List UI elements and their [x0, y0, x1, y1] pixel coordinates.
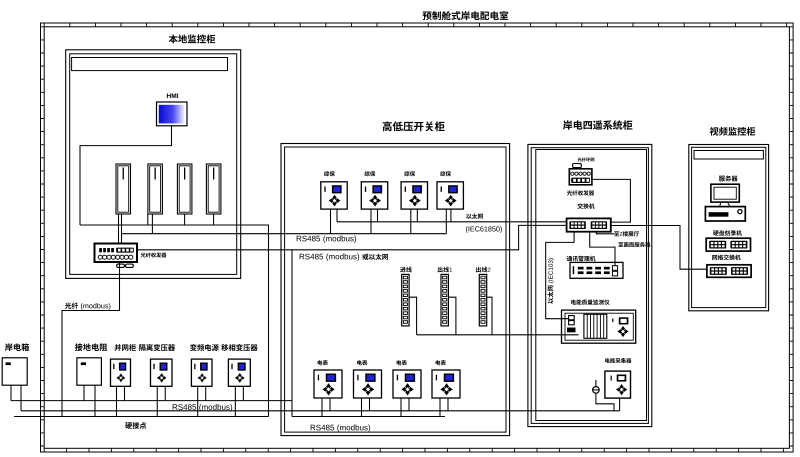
- wires 岸电箱: [10, 385, 12, 400]
- PLC module 3: [177, 164, 192, 214]
- wire switch to video cabinet: [611, 226, 707, 270]
- energy meter 电表 3: [393, 370, 421, 398]
- label 服务器: [719, 176, 725, 182]
- label RS485 (modbus) in-cabinet: [311, 425, 316, 431]
- protection relay 综保 1 label: [324, 171, 329, 176]
- device 隔离变压器: [151, 359, 173, 386]
- wire stub to 2F hall: [596, 232, 614, 234]
- cabinet 岸电四遥系统柜 enclosure: [528, 144, 652, 426]
- title 预制舱式岸电配电室: [423, 11, 432, 20]
- label 光纤 (modbus): [65, 303, 71, 309]
- feeder terminal 出线1 label: [438, 267, 443, 273]
- label 至画面服务器: [618, 242, 623, 247]
- label RS485 (modbus) bottom-left: [173, 404, 178, 410]
- protection relay 综保 2 label: [364, 171, 369, 176]
- feeder terminal 出线2 label: [476, 267, 481, 273]
- blank panel strip (video): [694, 151, 763, 160]
- server monitor: [711, 184, 739, 202]
- wire IEC103 switch to 电能质量监测仪: [546, 232, 574, 319]
- wire fiber/RS485-or-ethernet bus to switch: [137, 225, 567, 249]
- cabinet 高低压开关柜 enclosure: [281, 144, 510, 436]
- energy meter 电表 4 label: [436, 360, 441, 365]
- cabinet 岸电四遥系统柜 label: [563, 120, 572, 129]
- wire hard-contact bus (modules to bottom devices): [80, 225, 269, 417]
- label 通讯管理机: [567, 256, 573, 261]
- wires 并网柜: [116, 386, 118, 416]
- wire fiber modbus from transceiver: [62, 262, 120, 417]
- protection relay 综保 1: [321, 182, 347, 209]
- protection relay 综保 3 label: [404, 171, 409, 176]
- wires 综保 4: [330, 209, 332, 234]
- feeder terminal 进线 label: [400, 267, 406, 273]
- wire branch down to meter RS485 bus: [291, 250, 293, 417]
- energy meter 电表 2 label: [357, 360, 362, 365]
- wires 电表 to buses: [321, 398, 323, 417]
- wire transceiver to switch: [592, 179, 631, 222]
- ethernet switch 交换机: [567, 218, 611, 231]
- feeder terminal 进线: [402, 274, 409, 326]
- label 光纤收发器 (four-remote): [567, 190, 572, 195]
- label 网络交换机: [712, 255, 717, 260]
- wires 变频电源: [197, 386, 199, 416]
- label 至2楼展厅: [614, 231, 619, 236]
- wire RS485 bottom bus A: [11, 400, 292, 402]
- probe connector circle: [593, 387, 600, 394]
- cabinet 视频监控柜 label: [710, 127, 719, 136]
- energy meter 电表 2: [354, 370, 382, 398]
- energy collector 电能采集器: [605, 371, 631, 398]
- wires feeder terminals to bus: [409, 297, 416, 335]
- label 光纤环网 (tiny): [577, 158, 581, 162]
- protection relay 综保 2: [361, 182, 387, 209]
- network switch 网络交换机: [707, 265, 751, 278]
- HDD recorder 硬盘刻录机: [706, 238, 750, 251]
- label 电能采集器: [605, 358, 610, 363]
- wire feeder bus to 电能质量监测仪: [417, 334, 579, 336]
- wires 移相变压器: [234, 386, 236, 416]
- cabinet 本地监控柜 label: [169, 35, 178, 44]
- energy meter 电表 4: [432, 370, 460, 398]
- grounding resistor 接地电阻: [77, 358, 102, 385]
- label 交换机: [577, 203, 582, 208]
- feeder terminal 出线2: [479, 274, 486, 326]
- device 移相变压器: [228, 359, 250, 386]
- fiber inlet connector: [573, 164, 582, 168]
- protection relay 综保 4 label: [440, 171, 445, 176]
- HMI label: [167, 93, 171, 98]
- wire module3 to hard-contact bus: [184, 214, 186, 225]
- wire module1 to fiber transceiver: [118, 214, 120, 244]
- PLC module 1: [116, 164, 131, 214]
- protection relay 综保 3: [401, 182, 427, 209]
- device 变频电源: [191, 359, 212, 386]
- energy meter 电表 1: [314, 370, 342, 398]
- wire HMI to bus: [80, 126, 172, 225]
- label 接地电阻: [75, 343, 83, 351]
- fiber transceiver (four-remote): [569, 169, 592, 185]
- device 变频电源 label: [190, 344, 197, 351]
- cabinet 视频监控柜 enclosure: [689, 145, 769, 311]
- label 以太网 (IEC103) rotated: [547, 258, 554, 303]
- comm manager 通讯管理机: [570, 262, 623, 278]
- wires 接地电阻: [83, 385, 85, 400]
- wire module4 to hard-contact bus: [213, 214, 215, 225]
- label (IEC61850): [466, 226, 468, 233]
- label 岸电箱: [5, 343, 13, 351]
- device 移相变压器 label: [221, 344, 228, 351]
- energy meter 电表 1 label: [318, 360, 323, 365]
- fiber transceiver (local): [95, 244, 138, 263]
- device 并网柜: [111, 359, 131, 386]
- blank panel strip: [72, 58, 228, 71]
- energy meter 电表 3 label: [397, 360, 402, 365]
- cabinet 本地监控柜 enclosure: [66, 50, 241, 279]
- wire ethernet IEC61850 bus: [337, 221, 567, 223]
- device 并网柜 label: [115, 344, 122, 351]
- protection relay 综保 4: [437, 182, 463, 209]
- wires 隔离变压器: [156, 386, 158, 416]
- label RS485 (modbus) 或以太网: [300, 254, 305, 260]
- server system unit: [705, 207, 745, 221]
- wire collector to bus: [619, 398, 621, 411]
- shore power box 岸电箱: [2, 358, 27, 385]
- label 硬接点: [125, 422, 132, 428]
- label RS485 (modbus) upper: [297, 236, 302, 242]
- wire long bus to 电能采集器: [21, 410, 620, 412]
- PLC module 2: [148, 164, 163, 214]
- PLC module 4: [206, 164, 221, 214]
- wire RS485 bus to 综保: [121, 233, 446, 235]
- cabinet 高低压开关柜 label: [383, 121, 392, 131]
- wire module2 stubs: [147, 214, 149, 225]
- label 以太网: [466, 214, 472, 219]
- wire switch to 通讯管理机: [590, 232, 615, 266]
- wire hard-contact bottom bus: [14, 416, 269, 418]
- feeder terminal 出线1: [441, 274, 448, 326]
- HMI touchscreen: [157, 102, 188, 126]
- power quality monitor 电能质量监测仪: [562, 310, 636, 343]
- label 电能质量监测仪: [571, 300, 576, 305]
- label 硬盘刻录机: [713, 231, 719, 236]
- wire meter RS485 bus (in cabinet): [292, 416, 445, 418]
- device 隔离变压器 label: [139, 344, 145, 351]
- label 光纤收发器 (local): [141, 253, 146, 258]
